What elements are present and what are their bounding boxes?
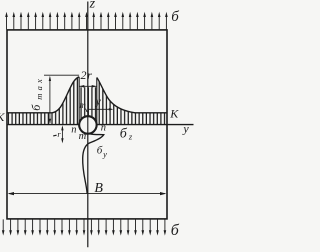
z axis through hole bbox=[87, 116, 89, 133]
svg-text:m: m bbox=[79, 131, 87, 142]
svg-text:2r: 2r bbox=[81, 68, 93, 82]
plate outline bbox=[7, 30, 167, 219]
hole circle bbox=[79, 116, 97, 133]
section line K-K / y axis bbox=[7, 124, 194, 126]
B width dimension bbox=[8, 192, 167, 195]
sigma_z curve left + uniform level bbox=[8, 77, 80, 113]
sigma_z curve right + uniform level bbox=[97, 78, 167, 113]
svg-text:В: В bbox=[94, 181, 103, 196]
sigma_z diagram hatching bbox=[6, 74, 168, 127]
svg-text:у: у bbox=[182, 122, 189, 136]
r depth dimension below K line bbox=[61, 125, 63, 143]
z axis bbox=[87, 2, 89, 248]
2r dimension bbox=[79, 85, 97, 88]
bottom distributed load arrows bbox=[2, 219, 166, 235]
sigma_y curve below hole bbox=[83, 134, 104, 193]
svg-text:m: m bbox=[79, 100, 86, 110]
y coordinate arrow bbox=[88, 108, 113, 110]
right peak vertical bbox=[96, 78, 98, 125]
sigma_max dimension arrow bbox=[44, 75, 79, 124]
svg-text:K: K bbox=[169, 107, 179, 121]
svg-text:n: n bbox=[71, 125, 76, 136]
svg-text:n: n bbox=[101, 122, 106, 133]
svg-text:у: у bbox=[95, 95, 101, 107]
svg-text:б: б bbox=[171, 9, 179, 25]
svg-text:z: z bbox=[89, 0, 96, 12]
left peak vertical bbox=[78, 77, 80, 125]
svg-text:б: б bbox=[171, 222, 180, 239]
top distributed load arrows bbox=[5, 12, 168, 30]
label r depth (small dash + r) bbox=[53, 134, 56, 137]
